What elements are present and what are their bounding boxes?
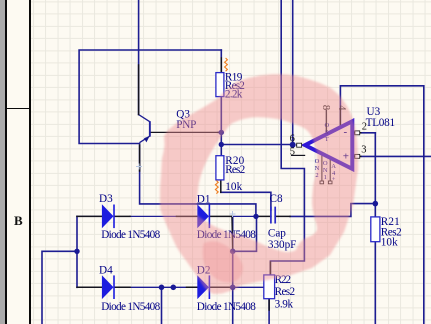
svg-text:C8: C8 — [270, 193, 283, 205]
svg-text:Diode 1N5408: Diode 1N5408 — [101, 229, 160, 241]
svg-text:3.9k: 3.9k — [275, 299, 294, 311]
svg-text:D4: D4 — [99, 264, 113, 276]
svg-text:10k: 10k — [225, 181, 242, 193]
svg-text:D1: D1 — [197, 194, 211, 206]
svg-text:3: 3 — [361, 144, 366, 155]
svg-text:Res2: Res2 — [225, 164, 245, 176]
svg-text:2: 2 — [362, 122, 367, 133]
svg-text:D3: D3 — [99, 193, 113, 205]
svg-text:6: 6 — [290, 134, 295, 145]
svg-text:10k: 10k — [381, 237, 398, 249]
svg-text:Res2: Res2 — [275, 286, 296, 298]
svg-text:Diode 1N5408: Diode 1N5408 — [101, 301, 160, 313]
svg-text:Cap: Cap — [268, 227, 286, 239]
svg-text:Diode 1N5408: Diode 1N5408 — [197, 301, 256, 313]
svg-text:TL081: TL081 — [366, 117, 396, 129]
svg-text:5: 5 — [290, 147, 295, 158]
